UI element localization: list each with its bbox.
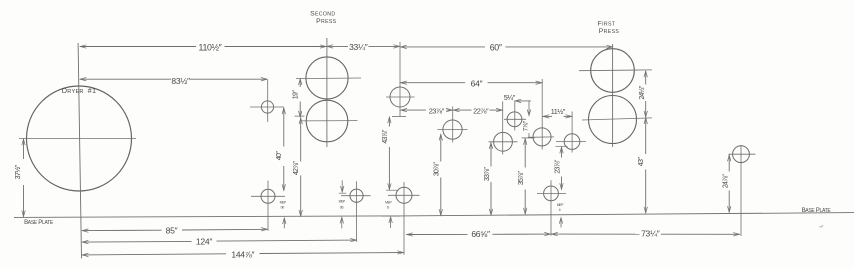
dim 85 bottom [82,229,162,231]
roll circle C11 [544,186,559,201]
svg-text:23⅞″: 23⅞″ [555,159,562,174]
svg-text:MEP: MEP [339,200,346,204]
dim 144 7/8 bottom [82,254,226,255]
roll circle C10 [564,134,580,150]
svg-text:24½″: 24½″ [638,85,646,100]
felt roll circle D1 [261,101,273,113]
dim 124 bottom [82,240,192,243]
dim 42 7/8 to base [300,118,302,162]
svg-text:MEP: MEP [385,201,392,205]
base plate line [14,216,400,218]
dryer vertical centerline [78,43,81,258]
svg-text:PRESS: PRESS [316,18,337,25]
svg-text:42⅞″: 42⅞″ [293,161,300,176]
svg-text:83½″: 83½″ [171,76,190,86]
svg-text:35⅞″: 35⅞″ [518,171,525,186]
svg-text:FIRST: FIRST [598,20,616,27]
svg-text:7⅞″: 7⅞″ [523,120,530,131]
svg-text:11½″: 11½″ [551,107,566,116]
dim 24 7/8 vertical [728,155,730,172]
svg-text:19″: 19″ [293,90,300,100]
first press top roll center ticks [579,69,652,72]
svg-text:144⅞″: 144⅞″ [231,250,254,260]
second press top roll center ticks [296,77,361,80]
first press vertical centerline [612,44,614,147]
svg-text:23⅞″: 23⅞″ [429,107,445,116]
roll circle C8 [507,112,522,127]
roll circle C7 [494,132,513,151]
tick below C5 [392,115,406,117]
svg-text:124″: 124″ [196,237,212,247]
second press vertical centerline [326,38,328,147]
svg-text:4: 4 [559,208,561,212]
dim 30 7/8 vertical [440,134,442,162]
dim 23 7/8 vertical right [556,145,568,147]
svg-text:BASE PLATE: BASE PLATE [24,220,54,226]
svg-text:43⅞″: 43⅞″ [382,129,389,144]
first press bottom roll circle [589,96,637,144]
dim 35 7/8 vertical [524,138,526,167]
svg-text:66⅝″: 66⅝″ [471,229,490,239]
press roll circle C5 [390,87,410,107]
dim 73 1/4 bottom [551,233,639,235]
svg-text:06: 06 [340,206,344,210]
dim 60 top [400,46,485,48]
dim 11 1/2 [543,115,552,117]
tick circle9 centerline left [522,137,535,139]
svg-text:PRESS: PRESS [599,28,620,35]
svg-text:43″: 43″ [638,157,645,167]
dim 43 to base [645,118,647,155]
svg-text:30⅞″: 30⅞″ [434,162,441,177]
dim 7 7/8 vertical [528,101,530,115]
svg-text:22⅞″: 22⅞″ [473,107,489,116]
roll circle C6 [443,120,462,139]
dim 33 7/8 vertical [490,142,492,166]
roll circle at 124in [350,189,363,202]
dim 22 7/8 horizontal [453,109,471,111]
svg-text:64″: 64″ [471,78,483,88]
dim 37 1/2 vertical [23,139,25,159]
dim 23 7/8 horizontal [401,109,426,111]
dim 19 between rolls [295,115,305,117]
first press top roll circle [591,49,635,93]
circle11 height arrows [560,218,562,227]
svg-text:SECOND: SECOND [310,11,335,18]
svg-text:5¼″: 5¼″ [504,93,516,102]
dim 110 1/2 top [80,46,196,48]
circle4 height arrows [390,217,392,228]
dryer horizontal centerline [19,138,136,140]
second press bottom roll circle [306,100,348,142]
stray pencil mark [820,225,824,227]
felt roll circle D2 [261,189,275,203]
roll circle C12 [733,146,750,163]
svg-text:6: 6 [387,206,389,210]
first press bottom roll center ticks [582,118,652,120]
svg-text:60″: 60″ [490,43,502,53]
svg-text:00: 00 [281,206,285,210]
dim 43 7/8 vertical [388,117,390,127]
svg-text:33¼″: 33¼″ [349,42,368,52]
dim 24 1/2 between rolls [645,71,647,85]
roll circle at 144in [396,187,412,203]
second press bottom roll center ticks [301,120,358,122]
svg-text:40″: 40″ [276,151,283,161]
svg-text:MEP: MEP [557,203,564,207]
roll circle C9 [533,128,551,146]
svg-text:BASE PLATE: BASE PLATE [802,208,832,214]
svg-text:33⅞″: 33⅞″ [484,167,491,182]
dim 33 1/4 top [327,45,348,47]
svg-text:24⅞″: 24⅞″ [722,174,729,189]
dryer circle [27,86,132,191]
svg-text:MEP: MEP [280,200,287,204]
svg-text:110½″: 110½″ [199,42,222,52]
dim 40 between D1 and D2 [283,108,285,147]
circle3 height arrows [341,180,343,191]
svg-text:85″: 85″ [166,225,178,235]
dim 64 [400,82,465,84]
svg-text:37½″: 37½″ [13,164,22,179]
svg-text:73¼″: 73¼″ [641,229,660,239]
D2 height tiny dim [283,218,285,228]
dim 66 5/8 bottom [406,233,467,235]
dim 83 1/2 [80,78,171,80]
second press top roll circle [306,57,348,99]
